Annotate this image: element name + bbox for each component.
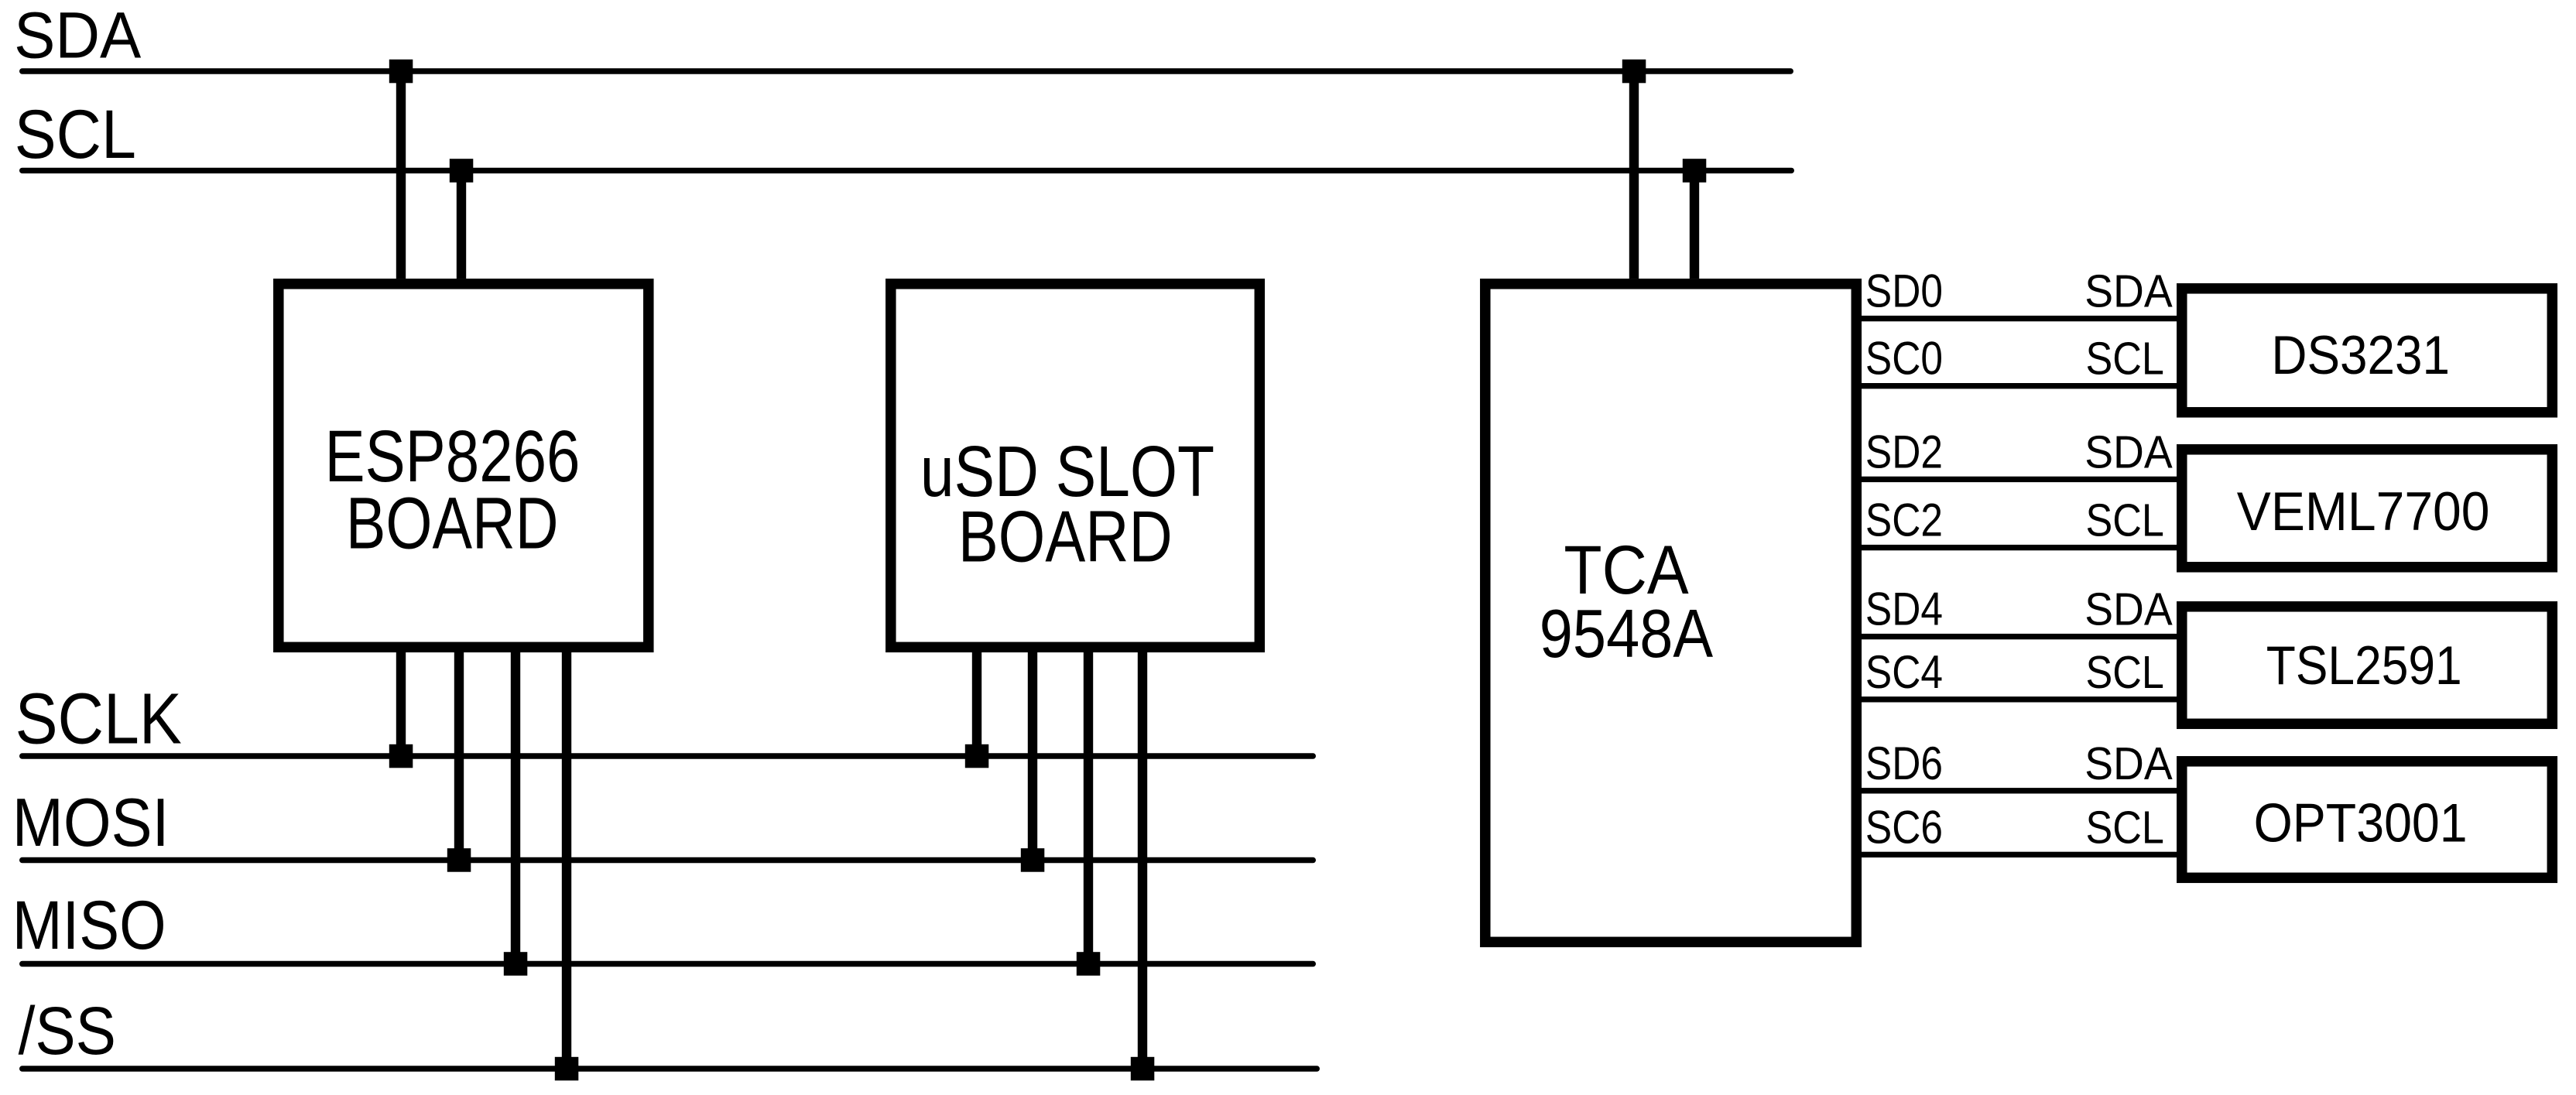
wire MISO bus xyxy=(19,961,1316,967)
wire SD4 net xyxy=(1860,634,2179,639)
svg-text:BOARD: BOARD xyxy=(958,496,1173,577)
wire uSD SCLK pin xyxy=(972,642,981,757)
junction SCL/TCA9548A xyxy=(1683,159,1707,183)
svg-text:BOARD: BOARD xyxy=(346,483,559,565)
junction SCLK/ESP8266 xyxy=(389,744,413,768)
block DS3231 U4 RTC xyxy=(2182,289,2553,412)
wire ESP8266 SCLK pin xyxy=(396,642,406,757)
junction SCLK/uSD xyxy=(965,744,989,768)
svg-text:SC6: SC6 xyxy=(1865,801,1943,853)
svg-text:MOSI: MOSI xyxy=(12,784,170,861)
wire uSD /SS pin xyxy=(1138,642,1147,1069)
svg-text:SCL: SCL xyxy=(2086,801,2164,853)
junction MOSI/uSD xyxy=(1021,848,1045,872)
wire ESP8266 MOSI pin xyxy=(454,642,464,861)
wire SC4 net xyxy=(1860,696,2179,702)
block uSD SLOT BOARD U2 xyxy=(891,284,1260,648)
block ESP8266 BOARD U1 xyxy=(279,284,649,648)
svg-text:DS3231: DS3231 xyxy=(2271,325,2450,385)
svg-text:SDA: SDA xyxy=(2084,737,2173,789)
wire uSD MOSI pin xyxy=(1028,642,1037,861)
svg-text:SD6: SD6 xyxy=(1865,737,1943,789)
wire uSD MISO pin xyxy=(1084,642,1093,964)
svg-text:VEML7700: VEML7700 xyxy=(2237,481,2490,542)
junction /SS/ESP8266 xyxy=(555,1057,579,1081)
wire SC0 net xyxy=(1860,383,2179,388)
svg-text:SCL: SCL xyxy=(2086,333,2164,385)
wire SD6 net xyxy=(1860,788,2179,793)
block VEML7700 U5 light sensor xyxy=(2182,450,2553,567)
junction SCL/ESP8266 xyxy=(450,159,474,183)
junction /SS/uSD xyxy=(1131,1057,1155,1081)
junction MOSI/ESP8266 xyxy=(447,848,471,872)
junction MISO/ESP8266 xyxy=(504,952,528,976)
svg-text:TSL2591: TSL2591 xyxy=(2266,635,2462,696)
wire SCL to ESP8266 board xyxy=(457,170,466,279)
wire SD0 net xyxy=(1860,316,2179,321)
wire ESP8266 /SS pin xyxy=(562,642,571,1069)
junction SDA/ESP8266 xyxy=(389,60,413,84)
block OPT3001 U7 light sensor xyxy=(2182,761,2553,878)
svg-text:SDA: SDA xyxy=(2084,583,2173,635)
wire ESP8266 MISO pin xyxy=(511,642,520,964)
svg-text:SC4: SC4 xyxy=(1865,646,1943,698)
wire SD2 net xyxy=(1860,477,2179,482)
junction MISO/uSD xyxy=(1077,952,1101,976)
svg-text:SD4: SD4 xyxy=(1865,583,1943,635)
svg-text:SDA: SDA xyxy=(2084,426,2173,477)
svg-text:9548A: 9548A xyxy=(1540,595,1714,672)
svg-text:MISO: MISO xyxy=(12,887,166,963)
junction SDA/TCA9548A xyxy=(1622,60,1646,84)
wire SC2 net xyxy=(1860,545,2179,550)
svg-text:SDA: SDA xyxy=(2084,265,2173,317)
svg-text:SD2: SD2 xyxy=(1865,426,1943,477)
svg-text:SCL: SCL xyxy=(2086,494,2164,546)
svg-text:SCLK: SCLK xyxy=(15,679,182,759)
svg-text:SDA: SDA xyxy=(14,0,142,71)
svg-text:SCL: SCL xyxy=(15,95,136,173)
wire SCL to TCA9548A xyxy=(1690,170,1699,279)
wire SDA to TCA9548A xyxy=(1629,71,1639,279)
wire SCLK bus xyxy=(19,753,1316,758)
block TSL2591 U6 light sensor xyxy=(2182,607,2553,724)
svg-text:SCL: SCL xyxy=(2086,646,2164,698)
svg-text:OPT3001: OPT3001 xyxy=(2254,792,2468,854)
wire SDA bus xyxy=(19,68,1793,74)
wire SDA to ESP8266 board xyxy=(396,71,406,279)
block TCA9548A U3 I2C multiplexer xyxy=(1485,284,1857,943)
wire /SS bus xyxy=(19,1066,1320,1071)
svg-text:SC0: SC0 xyxy=(1865,333,1943,385)
svg-text:SD0: SD0 xyxy=(1865,265,1943,317)
wire SCL bus xyxy=(19,168,1794,173)
svg-text:/SS: /SS xyxy=(19,994,116,1069)
wire SC6 net xyxy=(1860,852,2179,857)
wire MOSI bus xyxy=(19,857,1316,863)
svg-text:SC2: SC2 xyxy=(1865,494,1943,546)
